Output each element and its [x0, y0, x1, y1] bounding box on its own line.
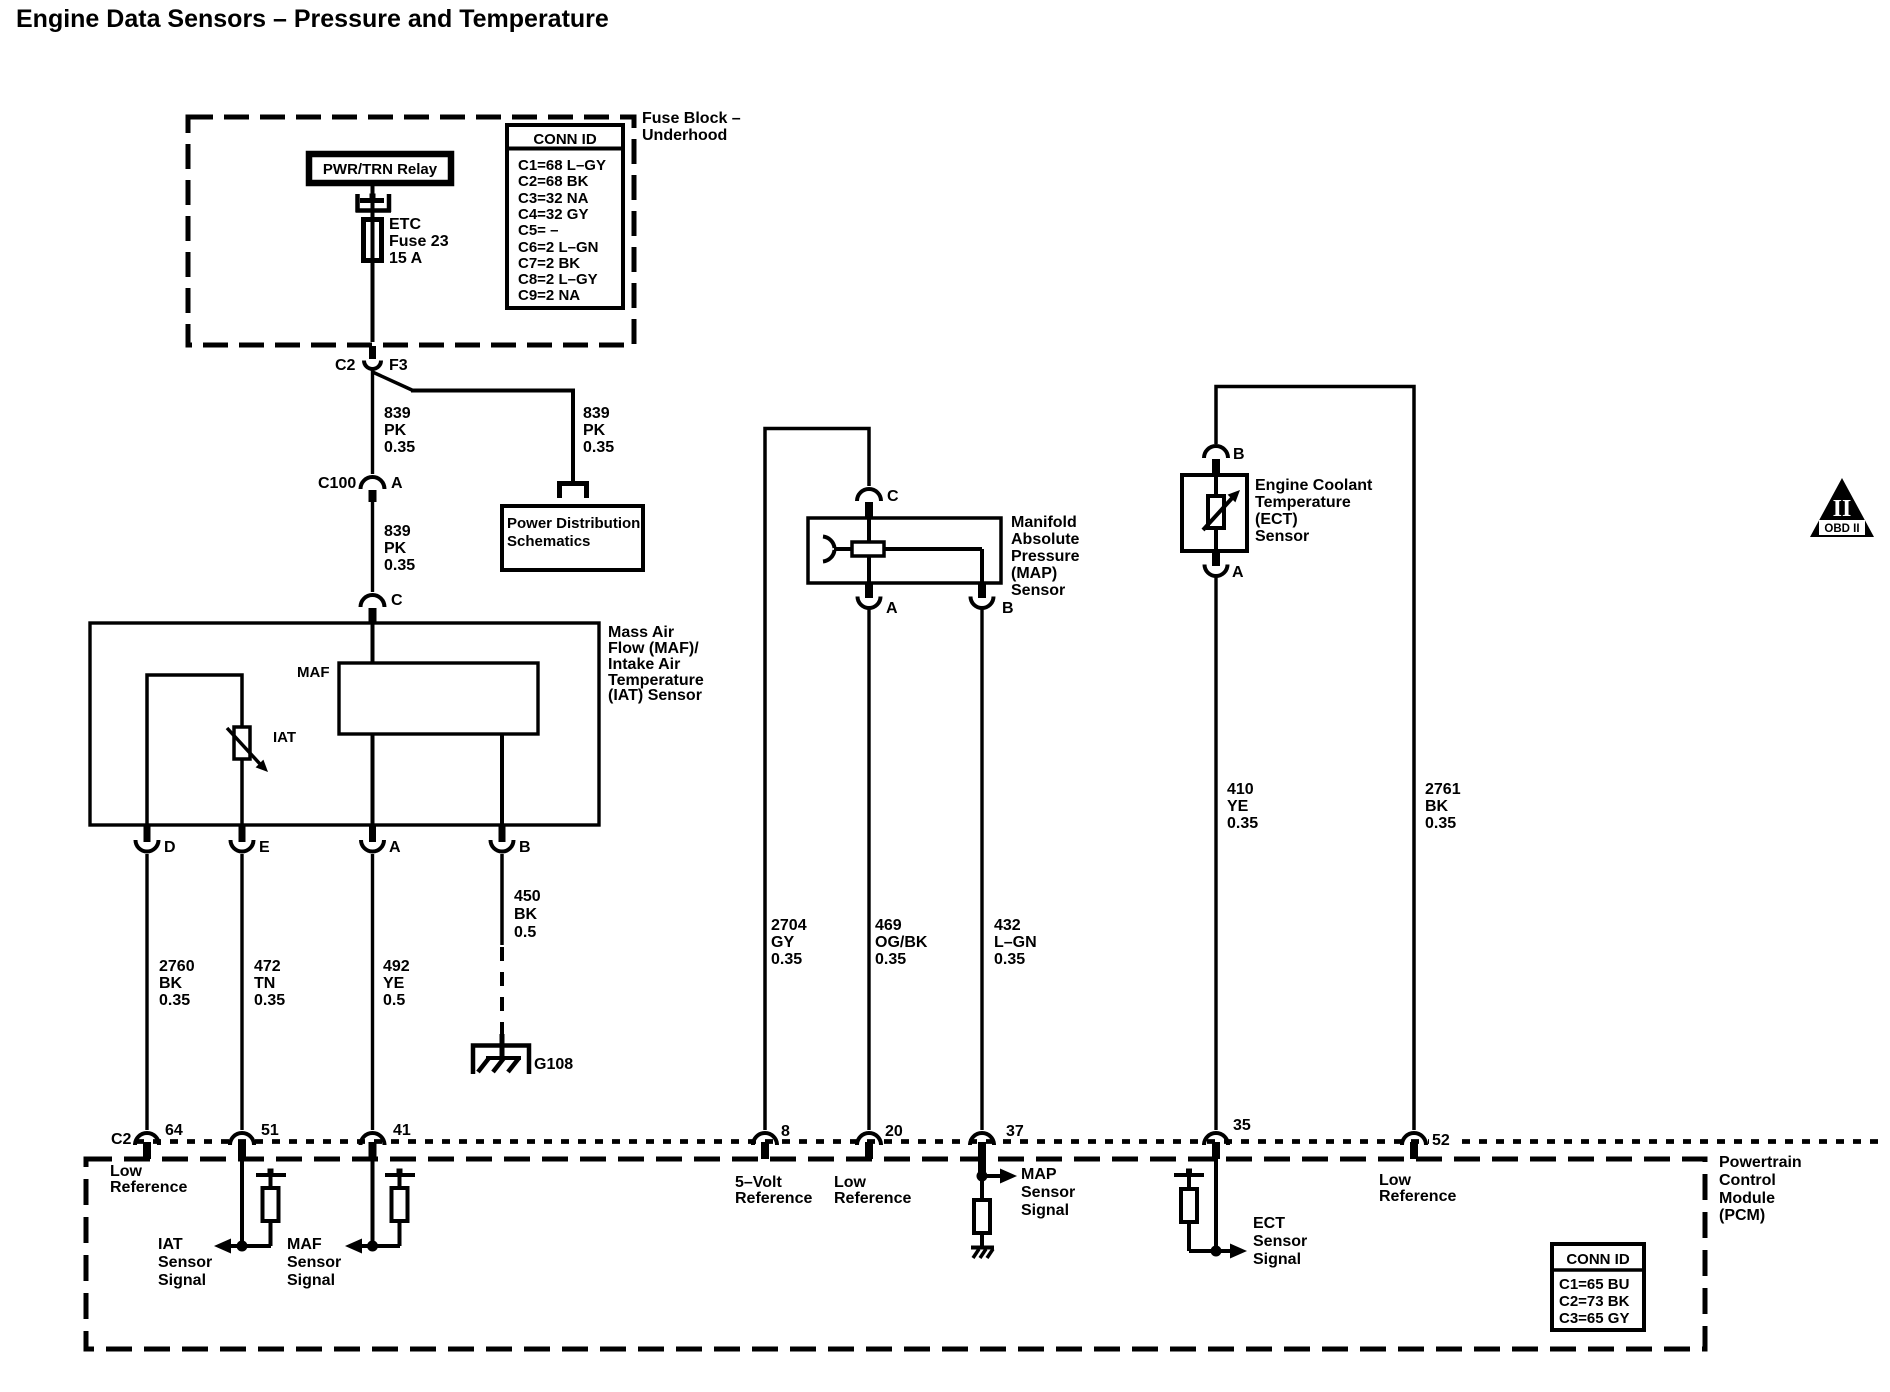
svg-text:(PCM): (PCM) [1719, 1207, 1765, 1224]
svg-text:II: II [1833, 496, 1852, 522]
svg-text:C3=32 NA: C3=32 NA [518, 190, 589, 207]
IAT pull-up resistor [263, 1188, 279, 1221]
svg-text:C2: C2 [335, 357, 356, 374]
svg-text:51: 51 [261, 1122, 279, 1139]
svg-text:G108: G108 [534, 1056, 573, 1073]
wire 839 PK: C100 to MAF [371, 502, 374, 592]
svg-text:Intake Air: Intake Air [608, 656, 680, 673]
pin A of MAP sensor [865, 584, 873, 598]
svg-text:B: B [519, 839, 531, 856]
svg-text:E: E [259, 839, 270, 856]
svg-text:Low: Low [110, 1163, 143, 1180]
svg-text:GY: GY [771, 934, 794, 951]
svg-text:432: 432 [994, 917, 1021, 934]
wire: relay to fuse [371, 186, 375, 342]
svg-text:2704: 2704 [771, 917, 807, 934]
svg-text:Pressure: Pressure [1011, 548, 1080, 565]
svg-text:Signal: Signal [1253, 1251, 1301, 1268]
svg-text:0.5: 0.5 [383, 992, 405, 1009]
junction [1211, 1246, 1222, 1257]
IAT thermistor [234, 727, 250, 759]
svg-text:OBD II: OBD II [1824, 523, 1859, 535]
svg-text:PWR/TRN Relay: PWR/TRN Relay [323, 161, 438, 178]
MAP transducer symbol [823, 537, 835, 549]
PCM pin 20 [857, 1133, 881, 1145]
pin B of MAP sensor [978, 584, 986, 598]
svg-text:37: 37 [1006, 1123, 1024, 1140]
svg-text:MAF: MAF [297, 664, 330, 681]
svg-text:MAF: MAF [287, 1236, 322, 1253]
svg-text:Signal: Signal [1021, 1202, 1069, 1219]
svg-text:CONN ID: CONN ID [1566, 1251, 1630, 1268]
wire: MAF element to pin B [500, 734, 504, 828]
svg-text:ECT: ECT [1253, 1215, 1285, 1232]
connector pin C of MAF sensor [361, 595, 385, 607]
svg-text:C8=2 L–GY: C8=2 L–GY [518, 271, 598, 288]
connector pin C of MAP sensor [857, 489, 881, 501]
PCM pin 35 [1204, 1133, 1228, 1145]
svg-text:Powertrain: Powertrain [1719, 1154, 1802, 1171]
svg-text:Signal: Signal [287, 1272, 335, 1289]
svg-text:B: B [1002, 600, 1014, 617]
svg-text:C7=2 BK: C7=2 BK [518, 255, 580, 272]
MAP sensor signal arrow [977, 1171, 988, 1182]
svg-text:2760: 2760 [159, 958, 195, 975]
CONN ID table (fuse block) [507, 125, 623, 308]
terminal clip at power distribution box [557, 481, 589, 486]
junction [237, 1241, 248, 1252]
svg-text:CONN ID: CONN ID [533, 131, 597, 148]
pin A of ECT sensor [1212, 551, 1220, 566]
wire: IAT branch [147, 675, 242, 828]
svg-text:410: 410 [1227, 781, 1254, 798]
wire 410 YE: pin A to PCM 35 [1214, 576, 1217, 1130]
wire pin B to pin A inside ECT box [1214, 476, 1218, 551]
fuse block - underhood dashed box [188, 117, 634, 345]
svg-text:Sensor: Sensor [1021, 1184, 1075, 1201]
svg-text:Reference: Reference [735, 1190, 812, 1207]
svg-text:Module: Module [1719, 1190, 1775, 1207]
svg-text:BK: BK [1425, 798, 1449, 815]
wire pin 51 inside PCM [240, 1159, 244, 1246]
MAF element box [339, 663, 538, 734]
connector pin B of ECT sensor [1204, 446, 1228, 458]
ECT sensor signal arrow [1189, 1249, 1231, 1253]
svg-text:MAP: MAP [1021, 1166, 1057, 1183]
svg-text:C4=32 GY: C4=32 GY [518, 206, 588, 223]
MAF pull-up resistor [392, 1188, 408, 1221]
svg-text:Sensor: Sensor [1255, 528, 1309, 545]
svg-text:OG/BK: OG/BK [875, 934, 928, 951]
PCM pin 8 [753, 1133, 777, 1145]
svg-text:A: A [1232, 564, 1244, 581]
connector C2 pin F3 [364, 361, 381, 370]
IAT sensor signal arrow [228, 1244, 271, 1248]
svg-text:Reference: Reference [1379, 1188, 1456, 1205]
svg-text:52: 52 [1432, 1132, 1450, 1149]
ground inside PCM [971, 1246, 994, 1250]
wire stub through fuse block edge [369, 346, 376, 359]
svg-text:L–GN: L–GN [994, 934, 1037, 951]
svg-text:0.35: 0.35 [254, 992, 285, 1009]
svg-text:8: 8 [781, 1123, 790, 1140]
svg-text:C6=2 L–GN: C6=2 L–GN [518, 239, 598, 256]
svg-text:Engine Data Sensors – Pressure: Engine Data Sensors – Pressure and Tempe… [16, 5, 609, 33]
svg-text:PK: PK [384, 422, 407, 439]
pin E of MAF/IAT sensor [239, 825, 246, 842]
fuse F23: ETC Fuse 23 15 A [364, 220, 382, 261]
junction [367, 1241, 378, 1252]
svg-text:Manifold: Manifold [1011, 514, 1077, 531]
svg-text:Reference: Reference [110, 1179, 187, 1196]
svg-text:C3=65 GY: C3=65 GY [1559, 1310, 1629, 1327]
svg-text:Sensor: Sensor [158, 1254, 212, 1271]
svg-text:(MAP): (MAP) [1011, 565, 1057, 582]
svg-text:(ECT): (ECT) [1255, 511, 1298, 528]
connector C100 pin A [361, 477, 385, 489]
svg-text:F3: F3 [389, 357, 408, 374]
wire: MAF element to pin A [371, 734, 375, 828]
PCM pin 41 [361, 1133, 385, 1145]
svg-text:0.35: 0.35 [1227, 815, 1258, 832]
svg-text:Fuse Block –: Fuse Block – [642, 110, 741, 127]
svg-text:0.35: 0.35 [583, 439, 614, 456]
svg-text:Flow (MAF)/: Flow (MAF)/ [608, 640, 699, 657]
wire pin 37 inside PCM [980, 1159, 984, 1200]
svg-text:BK: BK [159, 975, 183, 992]
svg-text:0.35: 0.35 [1425, 815, 1456, 832]
svg-text:Schematics: Schematics [507, 533, 590, 550]
svg-text:C1=65 BU: C1=65 BU [1559, 1276, 1629, 1293]
ECT pull-up supply tap [1186, 1169, 1192, 1175]
wire 472 TN: pin E to PCM 51 [240, 854, 243, 1130]
wire 2761 BK: ECT low reference loop [1216, 387, 1414, 1131]
svg-text:PK: PK [384, 540, 407, 557]
pin A of MAF/IAT sensor [369, 825, 376, 842]
ECT sensor box [1182, 475, 1247, 551]
PCM connector dotted line [136, 1139, 1878, 1144]
OBD II symbol [1810, 478, 1874, 537]
svg-text:41: 41 [393, 1122, 411, 1139]
svg-text:C1=68 L–GY: C1=68 L–GY [518, 157, 606, 174]
svg-text:YE: YE [1227, 798, 1249, 815]
wire 450 BK: pin B to ground [500, 854, 504, 945]
svg-text:Signal: Signal [158, 1272, 206, 1289]
svg-text:C9=2 NA: C9=2 NA [518, 287, 580, 304]
relay K: PWR/TRN Relay box [309, 154, 451, 183]
svg-text:A: A [886, 600, 898, 617]
svg-text:839: 839 [384, 523, 411, 540]
svg-text:Absolute: Absolute [1011, 531, 1080, 548]
MAF/IAT sensor box [90, 623, 599, 825]
svg-text:C2: C2 [111, 1131, 132, 1148]
svg-text:D: D [164, 839, 176, 856]
svg-text:492: 492 [383, 958, 410, 975]
svg-text:Power Distribution: Power Distribution [507, 515, 640, 532]
wire pin C through MAP box [867, 518, 871, 583]
svg-text:2761: 2761 [1425, 781, 1461, 798]
svg-text:64: 64 [165, 1122, 183, 1139]
pin B of MAF/IAT sensor [499, 825, 506, 842]
svg-text:Reference: Reference [834, 1190, 911, 1207]
wire 839 PK: C2 to C100 [371, 370, 374, 474]
svg-text:Underhood: Underhood [642, 127, 727, 144]
PCM pin 52 [1402, 1133, 1426, 1145]
svg-text:C100: C100 [318, 475, 356, 492]
svg-text:(IAT) Sensor: (IAT) Sensor [608, 687, 702, 704]
wire pin 41 inside PCM [371, 1159, 375, 1246]
svg-text:469: 469 [875, 917, 902, 934]
wire: pin C into MAF element [371, 624, 375, 664]
PCM pin 37 [970, 1133, 994, 1145]
svg-text:Engine Coolant: Engine Coolant [1255, 477, 1373, 494]
svg-text:Control: Control [1719, 1172, 1776, 1189]
PCM pin 51 [230, 1133, 254, 1145]
svg-text:B: B [1233, 446, 1245, 463]
svg-text:C: C [391, 592, 403, 609]
IAT pull-up supply tap [268, 1169, 274, 1175]
svg-text:0.35: 0.35 [384, 557, 415, 574]
svg-text:C5= –: C5= – [518, 222, 558, 239]
wire 492 YE: pin A to PCM 41 [371, 854, 374, 1130]
svg-text:IAT: IAT [158, 1236, 183, 1253]
svg-text:0.35: 0.35 [159, 992, 190, 1009]
svg-text:0.35: 0.35 [994, 951, 1025, 968]
pin D of MAF/IAT sensor [144, 825, 151, 842]
PCM pin 64 [135, 1133, 159, 1145]
svg-text:0.35: 0.35 [384, 439, 415, 456]
wire 2704 GY: 5-volt reference loop [765, 429, 869, 1131]
svg-text:Fuse 23: Fuse 23 [389, 233, 449, 250]
svg-text:Temperature: Temperature [1255, 494, 1351, 511]
svg-text:BK: BK [514, 906, 538, 923]
svg-text:20: 20 [885, 1123, 903, 1140]
svg-text:TN: TN [254, 975, 275, 992]
svg-text:ETC: ETC [389, 216, 421, 233]
svg-text:Low: Low [1379, 1172, 1412, 1189]
svg-text:YE: YE [383, 975, 405, 992]
wire 469 OG/BK: pin A to PCM 20 [867, 608, 870, 1130]
svg-text:Low: Low [834, 1174, 867, 1191]
svg-text:C2=73 BK: C2=73 BK [1559, 1293, 1630, 1310]
MAP load resistor [974, 1200, 990, 1233]
svg-text:839: 839 [583, 405, 610, 422]
svg-text:Sensor: Sensor [1253, 1233, 1307, 1250]
svg-text:Mass Air: Mass Air [608, 624, 674, 641]
CONN ID table (PCM) [1552, 1244, 1644, 1330]
svg-text:15 A: 15 A [389, 250, 423, 267]
wire pin 35 inside PCM [1214, 1159, 1218, 1251]
svg-text:0.35: 0.35 [771, 951, 802, 968]
MAF pull-up supply tap [397, 1169, 403, 1175]
svg-text:839: 839 [384, 405, 411, 422]
MAP sensor box [808, 518, 1001, 583]
svg-text:450: 450 [514, 888, 541, 905]
svg-text:C: C [887, 488, 899, 505]
ECT pull-up resistor [1181, 1189, 1197, 1222]
MAF sensor signal arrow [359, 1244, 400, 1248]
svg-text:Sensor: Sensor [287, 1254, 341, 1271]
ECT thermistor [1208, 496, 1224, 528]
svg-text:472: 472 [254, 958, 281, 975]
svg-text:Sensor: Sensor [1011, 582, 1065, 599]
svg-text:IAT: IAT [273, 729, 296, 746]
wire: branch to power distribution [373, 372, 414, 391]
svg-text:C2=68 BK: C2=68 BK [518, 173, 589, 190]
svg-text:PK: PK [583, 422, 606, 439]
ground G108 [473, 1046, 529, 1075]
svg-text:0.5: 0.5 [514, 924, 536, 941]
svg-text:A: A [389, 839, 401, 856]
svg-text:35: 35 [1233, 1117, 1251, 1134]
wire 432 L-GN: pin B to PCM 37 [980, 608, 983, 1130]
svg-text:5–Volt: 5–Volt [735, 1174, 783, 1191]
PCM dashed box [86, 1159, 1705, 1349]
relay output terminal clip [355, 194, 360, 212]
wire 2760 BK: pin D to PCM 64 [145, 854, 148, 1130]
power distribution schematics box [502, 506, 643, 570]
svg-text:0.35: 0.35 [875, 951, 906, 968]
svg-text:A: A [391, 475, 403, 492]
